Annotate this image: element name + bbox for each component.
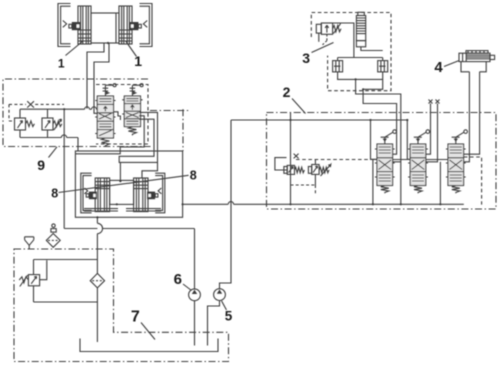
svg-text:6: 6: [174, 271, 182, 288]
supply line box3: [333, 23, 383, 61]
control valve A: [375, 144, 395, 186]
leader label 6: [183, 284, 192, 291]
spring valve 9a: [101, 138, 109, 147]
control valve B: [408, 144, 428, 186]
leader label 5: [222, 301, 227, 310]
wire valve9b port to motor8 left: [75, 116, 144, 154]
svg-text:8: 8: [51, 187, 58, 201]
wire motor1 port A: [87, 43, 104, 109]
box 9 boundary (pilot valve unit): [3, 79, 151, 147]
svg-text:1: 1: [134, 53, 142, 69]
motor left: [78, 6, 91, 44]
leader label 2: [292, 99, 306, 114]
leader label 3: [312, 43, 334, 53]
tank: [80, 339, 218, 352]
dash-dot vertical link to motor8 box: [182, 109, 184, 151]
leader label 1 right: [126, 42, 137, 57]
motor 8 housing box: [75, 151, 182, 217]
plugged pilot ports: [426, 104, 438, 162]
control valve C: [446, 144, 466, 186]
svg-text:5: 5: [225, 308, 233, 323]
spring valve A: [381, 186, 389, 194]
inner dashed box around pilot valves: [96, 85, 148, 145]
orifice X symbol: [27, 101, 34, 107]
junction dots: [119, 180, 121, 182]
leader label 4: [444, 61, 459, 67]
brake cylinder box3: [356, 12, 365, 47]
orifice X box2: [294, 154, 299, 159]
pilot pressure line to valves: [20, 107, 97, 109]
relief valve box9 left: [15, 109, 35, 137]
svg-text:8: 8: [190, 169, 197, 183]
long return wire left: [63, 109, 65, 228]
axle center block: [91, 13, 119, 43]
bracket right: [155, 173, 165, 213]
wire valve9b port outer wrap: [139, 112, 158, 178]
dashed pilot line box9: [9, 104, 64, 121]
supply unit boundary (dash-dot): [14, 249, 229, 362]
pump 5: [214, 289, 226, 301]
leader label 7: [141, 323, 155, 340]
brake wiring: [338, 72, 383, 89]
motor right: [119, 6, 132, 44]
svg-text:9: 9: [37, 157, 45, 173]
wire valve9b port middle wrap: [119, 119, 157, 162]
axle center block: [110, 180, 134, 204]
tank relief valve: [19, 260, 47, 303]
svg-text:3: 3: [302, 50, 310, 66]
box 2 boundary (main control valve): [267, 113, 497, 210]
item4 pipe right: [464, 72, 480, 154]
bracket left: [81, 173, 92, 213]
spring valve B: [414, 186, 422, 194]
travel motor assembly 8 (rear): [81, 173, 165, 213]
air filter cap: [52, 224, 55, 227]
svg-text:4: 4: [434, 59, 443, 76]
pilot line L2 to box2: [363, 89, 397, 154]
bracket left: [58, 4, 71, 47]
cylinder line box3: [361, 47, 383, 51]
drain drop line valve A: [372, 159, 374, 204]
reducing valve box3: [316, 23, 341, 45]
pump 5 suction: [208, 301, 220, 346]
supply line from pump5: [231, 120, 410, 159]
main pressure line box2: [290, 113, 292, 204]
motor left: [95, 178, 109, 212]
shuttle block right: [378, 61, 388, 72]
breather funnel: [25, 237, 34, 249]
wire valve9a jog: [114, 112, 121, 120]
relief valve box9 right: [42, 109, 62, 137]
junction dot: [107, 42, 109, 44]
pump 6: [189, 289, 201, 301]
pilot lever 9b: [130, 84, 144, 96]
drain drop line valve B: [439, 162, 441, 205]
pilot lever valve C: [452, 130, 468, 144]
spring valve C: [452, 186, 460, 194]
travel motor assembly 1 (front): [58, 4, 152, 47]
svg-text:2: 2: [283, 84, 291, 100]
svg-text:1: 1: [58, 56, 65, 70]
pilot gallery line: [296, 159, 372, 161]
dash-dot link line to box2: [150, 110, 189, 112]
relief valve box2 left: [275, 158, 305, 175]
motor right: [134, 178, 148, 212]
bracket right: [140, 4, 153, 47]
wire to motor8 center: [119, 162, 121, 181]
pilot spool valve 9b: [122, 96, 142, 127]
junction dot box8 right: [182, 203, 184, 205]
drain line box9: [20, 135, 78, 151]
wire motor1 port B: [94, 43, 109, 113]
relief valve connections: [34, 260, 98, 303]
box 3 boundary (swing brake valve unit): [311, 13, 391, 91]
svg-text:7: 7: [131, 308, 140, 325]
fitting left: [69, 22, 81, 30]
pump 5 line: [220, 120, 232, 289]
junction node: [63, 108, 65, 110]
pilot lever 9a: [103, 84, 117, 96]
pilot spool valve 9a: [95, 96, 115, 138]
air filter diamond: [46, 234, 60, 248]
pump 6 suction: [194, 301, 196, 346]
fitting left: [86, 192, 97, 200]
return filter diamond: [90, 273, 104, 288]
leader label 1 left: [66, 41, 84, 56]
spring valve 9b: [128, 127, 136, 136]
return line to box2: [183, 202, 464, 205]
pump 6 line: [64, 229, 194, 289]
item4 pipe left: [464, 72, 470, 162]
leader labels 8: [59, 175, 189, 192]
base plates: [84, 209, 161, 211]
relief valve box2 right: [308, 160, 330, 186]
shuttle block left: [333, 61, 343, 72]
fitting right: [147, 192, 158, 200]
inner dashed corner box2 right: [464, 157, 482, 205]
leader label 9: [49, 147, 58, 158]
main drain line with crossing arc: [97, 217, 102, 342]
pilot lever valve B: [414, 130, 430, 144]
grease cylinder item 4: [459, 51, 495, 72]
fitting right: [129, 22, 141, 30]
pilot lever valve A: [381, 130, 397, 144]
drain dashed box2: [291, 185, 316, 195]
pilot line L1 to box2: [356, 79, 401, 204]
